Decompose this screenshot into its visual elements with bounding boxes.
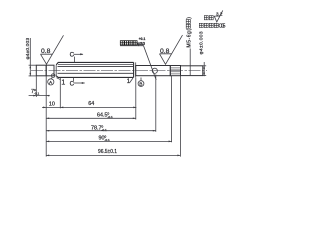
note underline and leader: [120, 46, 156, 80]
right journal: [181, 66, 203, 76]
qiyu (2 cjk): [204, 16, 208, 20]
96.5 arrows: [46, 155, 49, 157]
svg-text:3.2: 3.2: [216, 12, 223, 17]
body outline: [56, 62, 133, 77]
section C bottom: [74, 82, 85, 84]
dim line 78.7: [46, 130, 156, 132]
roughness right: [160, 35, 183, 64]
svg-text:10: 10: [49, 101, 55, 107]
svg-text:C: C: [70, 52, 75, 59]
M5 rotated: M5-6g( cj cj ): [186, 17, 192, 48]
svg-text:B: B: [139, 81, 142, 87]
left phi4 arrows: [29, 65, 31, 68]
10 arrows: [43, 107, 46, 109]
svg-text:φ3.0: φ3.0: [137, 41, 145, 46]
left journal: [36, 65, 46, 76]
svg-text:64: 64: [88, 101, 94, 107]
64 right arrow: [133, 107, 136, 109]
arrowheads: [29, 53, 205, 156]
dim line 10/64: [42, 106, 136, 108]
svg-text:96.5±0.1: 96.5±0.1: [98, 149, 117, 155]
C top arrow: [80, 53, 83, 55]
datum B: [138, 81, 144, 87]
svg-text:φ4±0.003: φ4±0.003: [25, 38, 31, 60]
svg-text:M5-6g(: M5-6g(: [187, 29, 193, 48]
centerline: [31, 69, 207, 71]
extension lines below: [35, 76, 37, 97]
dim line 7: [29, 95, 50, 97]
groove width 1 leader right: [130, 78, 133, 83]
section C top: [74, 53, 84, 55]
svg-text:φ4±0.003: φ4±0.003: [199, 31, 205, 54]
7 dim arrows (outside): [33, 95, 36, 97]
hole circle: [152, 68, 157, 73]
weizhudaojiao C0.5: [199, 23, 203, 27]
roughness left: [41, 35, 64, 64]
roughness top-right small: [214, 10, 223, 22]
right body groove: [135, 62, 137, 77]
svg-text:1: 1: [61, 79, 65, 86]
svg-text:0.8: 0.8: [160, 48, 170, 55]
mid section: [136, 66, 171, 76]
svg-text:0.8: 0.8: [41, 48, 51, 55]
groove width 1 leader left: [56, 78, 60, 80]
left phi4 vertical dim: [29, 38, 31, 76]
svg-text:C0.5: C0.5: [219, 24, 226, 30]
svg-text:C: C: [70, 81, 75, 88]
thread relief block: [170, 66, 180, 76]
datum A: [51, 74, 55, 78]
bold note: 4 cjk + phi3.0 +0.1: [120, 41, 124, 45]
left groove: [53, 65, 55, 76]
dim line 96.5: [46, 154, 180, 156]
dim line 64.5: [46, 117, 136, 119]
64.5 arrows: [46, 117, 49, 119]
90 arrows: [46, 141, 49, 143]
body thread lines: [58, 65, 134, 67]
78.7 arrows: [46, 130, 49, 132]
left collar: [46, 65, 54, 76]
M5 leader stub: [189, 49, 191, 66]
right phi4 vertical dim: [203, 62, 205, 76]
svg-text:+0.1: +0.1: [139, 37, 146, 41]
dim line 90: [46, 140, 171, 142]
C bottom arrow: [82, 82, 85, 84]
right phi4 arrows: [203, 66, 205, 69]
